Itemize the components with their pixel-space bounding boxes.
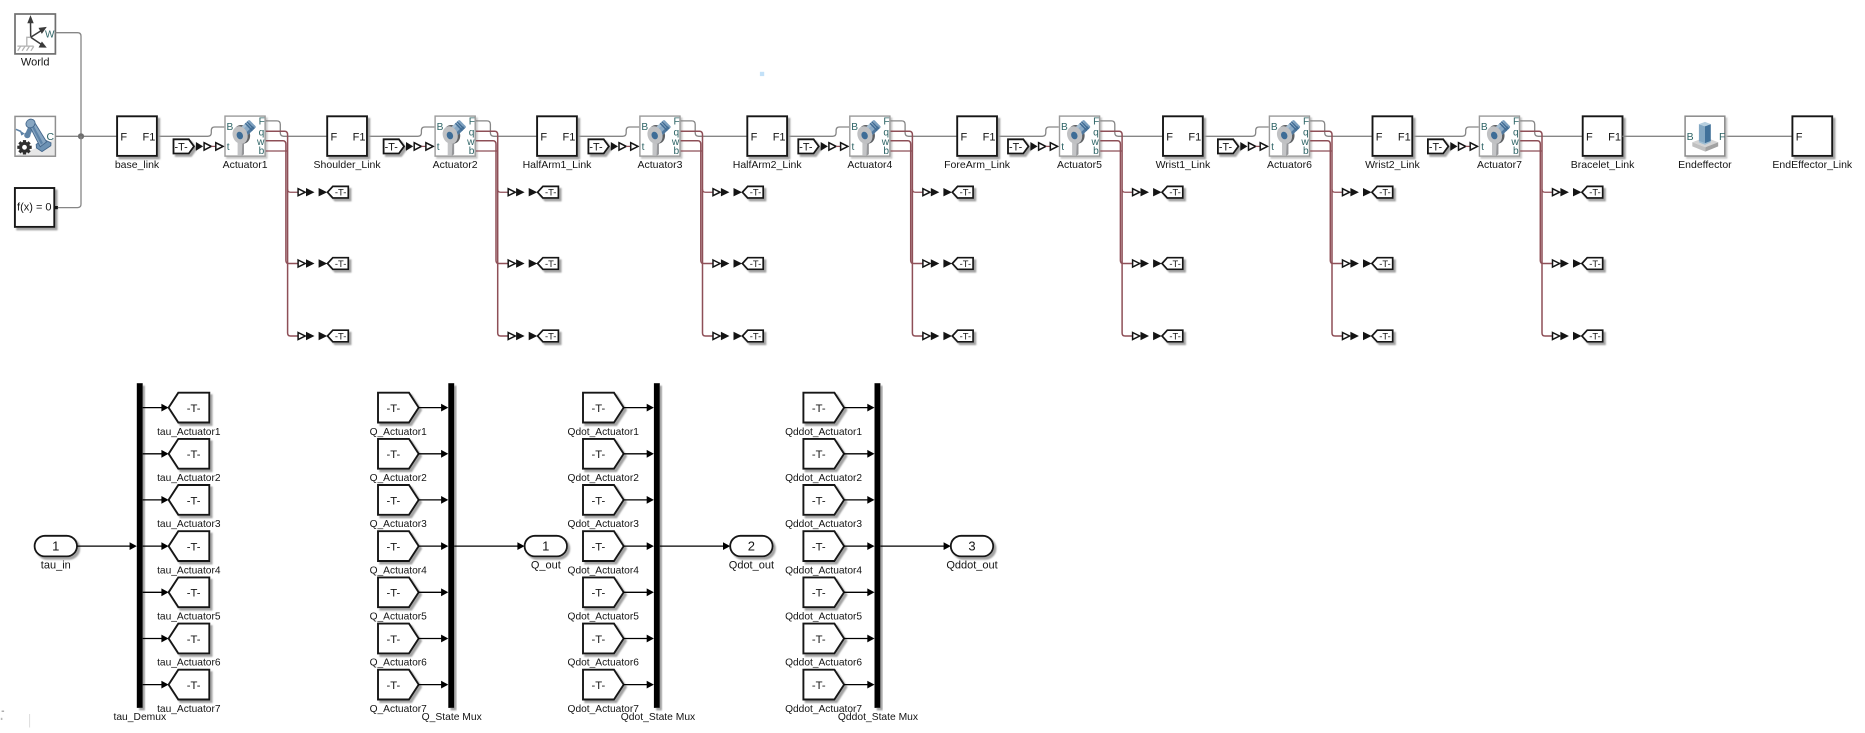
goto tag -T- tau_Actuator5 <box>157 577 221 622</box>
svg-text:-T-: -T- <box>812 449 826 461</box>
svg-text:Qddot_out: Qddot_out <box>946 559 997 571</box>
goto tag -T- tau_Actuator6 <box>157 624 221 669</box>
junction node <box>78 133 84 139</box>
wire tau_Demux out 7 <box>143 684 162 686</box>
svg-text:t: t <box>227 142 230 153</box>
wire Actuator1 q branch row1 <box>288 189 299 192</box>
svg-text:-T-: -T- <box>591 634 605 646</box>
svg-text:-T-: -T- <box>1379 330 1390 341</box>
goto group Actuator7 b <box>1553 330 1603 342</box>
svg-text:-T-: -T- <box>750 187 761 198</box>
svg-text:b: b <box>1303 146 1309 157</box>
arrow into Actuator7 t <box>1450 142 1457 151</box>
svg-text:-T-: -T- <box>545 258 556 269</box>
svg-text:tau_Actuator4: tau_Actuator4 <box>157 565 221 576</box>
wire Actuator7 w down <box>1520 141 1553 264</box>
svg-text:-T-: -T- <box>591 680 605 692</box>
from tag -T- Qddot_Actuator5 <box>785 577 862 622</box>
wire tag to Actuator1 t <box>211 145 216 147</box>
svg-text:Wrist2_Link: Wrist2_Link <box>1365 159 1420 171</box>
svg-text:Q_Actuator4: Q_Actuator4 <box>370 565 428 576</box>
wire Q_Actuator5 to Q_State Mux <box>418 591 441 593</box>
wire Qddot_Actuator7 to Qddot_State Mux <box>844 684 868 686</box>
from tag -T- feeding Actuator6 t <box>1218 139 1239 153</box>
wire Actuator6 w down <box>1310 141 1343 264</box>
svg-text:1: 1 <box>542 539 549 554</box>
svg-text:Qdot_Actuator6: Qdot_Actuator6 <box>568 658 640 669</box>
svg-text:F: F <box>1796 131 1803 143</box>
goto group Actuator3 q <box>713 186 763 198</box>
from tag -T- feeding Actuator1 t <box>174 139 195 153</box>
wire Wrist1_Link F1 to Actuator6 B <box>1203 127 1269 136</box>
wire tau_Demux out 1 <box>143 407 162 409</box>
mux bar tau_Demux <box>113 383 167 723</box>
svg-text:Qddot_State Mux: Qddot_State Mux <box>838 712 919 723</box>
wire HalfArm1_Link F1 to Actuator3 B <box>577 127 639 136</box>
svg-text:Shoulder_Link: Shoulder_Link <box>314 159 382 171</box>
svg-text:-T-: -T- <box>386 634 400 646</box>
wire Qdot_Actuator3 to Qdot_State Mux <box>623 499 647 501</box>
from tag -T- Qdot_Actuator2 <box>568 439 640 484</box>
svg-text:Qddot_Actuator5: Qddot_Actuator5 <box>785 612 862 623</box>
svg-text:-T-: -T- <box>591 449 605 461</box>
goto group Actuator1 b <box>298 330 348 342</box>
wire Actuator4 q/b down <box>891 131 924 336</box>
goto group Actuator6 w <box>1343 258 1393 270</box>
svg-text:F: F <box>883 116 889 127</box>
svg-text:-T-: -T- <box>386 449 400 461</box>
wire Actuator1 q/b down <box>266 131 299 336</box>
svg-text:-T-: -T- <box>1169 187 1180 198</box>
wire Actuator5 q/b down <box>1100 131 1133 336</box>
svg-text:Qdot_Actuator1: Qdot_Actuator1 <box>568 427 640 438</box>
svg-text:F1: F1 <box>1398 131 1411 143</box>
svg-text:-T-: -T- <box>591 588 605 600</box>
svg-text:2: 2 <box>748 539 755 554</box>
wire Qddot_State Mux to Qddot_out <box>880 545 944 547</box>
svg-text:World: World <box>21 57 50 69</box>
goto tag -T- tau_Actuator3 <box>157 485 221 530</box>
wire Actuator6 F to next link <box>1310 121 1372 136</box>
svg-text:-T-: -T- <box>960 258 971 269</box>
wire Endeffector F to EndEffector_Link F <box>1725 135 1792 137</box>
goto group Actuator2 b <box>508 330 558 342</box>
arrow into Actuator1 t <box>196 142 203 151</box>
svg-text:F1: F1 <box>773 131 786 143</box>
svg-text:F: F <box>751 131 758 143</box>
svg-text:Actuator6: Actuator6 <box>1267 159 1312 171</box>
goto group Actuator6 b <box>1343 330 1393 342</box>
wire Actuator5 F to next link <box>1100 121 1163 136</box>
wire HalfArm2_Link F1 to Actuator4 B <box>787 127 849 136</box>
svg-text:Qdot_Actuator4: Qdot_Actuator4 <box>568 565 640 576</box>
svg-text:Q_Actuator2: Q_Actuator2 <box>370 473 428 484</box>
svg-text:-T-: -T- <box>589 141 603 153</box>
svg-text:-T-: -T- <box>187 542 201 554</box>
wire Q_Actuator2 to Q_State Mux <box>418 453 441 455</box>
goto group Actuator5 b <box>1133 330 1183 342</box>
wire Qddot_Actuator3 to Qddot_State Mux <box>844 499 868 501</box>
wire Actuator4 w down <box>891 141 924 264</box>
input port 1 tau_in <box>35 536 77 572</box>
actuator block Actuator3 <box>638 116 683 171</box>
goto group Actuator4 b <box>923 330 973 342</box>
from tag -T- Qddot_Actuator1 <box>785 393 862 438</box>
svg-text:base_link: base_link <box>115 159 160 171</box>
wire Actuator6 q/b down <box>1310 131 1343 336</box>
goto group Actuator3 w <box>713 258 763 270</box>
svg-text:Qdot_Actuator5: Qdot_Actuator5 <box>568 612 640 623</box>
wire Qdot_Actuator4 to Qdot_State Mux <box>623 545 647 547</box>
svg-text:b: b <box>1093 146 1099 157</box>
svg-text:tau_Actuator5: tau_Actuator5 <box>157 612 221 623</box>
goto group Actuator2 w <box>508 258 558 270</box>
from tag -T- feeding Actuator5 t <box>1008 139 1029 153</box>
svg-text:F: F <box>1586 131 1593 143</box>
from tag -T- Q_Actuator3 <box>370 485 428 530</box>
from tag -T- Qddot_Actuator2 <box>785 439 862 484</box>
wire Actuator5 q branch row1 <box>1122 189 1133 192</box>
mux bar Qdot_State Mux <box>621 383 696 723</box>
goto tag -T- tau_Actuator7 <box>157 670 221 715</box>
svg-text:-T-: -T- <box>812 542 826 554</box>
from tag -T- Q_Actuator2 <box>370 439 428 484</box>
goto group Actuator7 w <box>1553 258 1603 270</box>
wire Q_Actuator1 to Q_State Mux <box>418 407 441 409</box>
wire Mechanism C to base_link F <box>56 135 118 137</box>
wire tau_Demux out 2 <box>143 453 162 455</box>
wire Actuator7 q/b down <box>1520 131 1553 336</box>
wire tau_Demux out 4 <box>143 545 162 547</box>
svg-text:F: F <box>674 116 680 127</box>
svg-text:B: B <box>851 122 858 133</box>
from tag -T- Qddot_Actuator3 <box>785 485 862 530</box>
wire ForeArm_Link F1 to Actuator5 B <box>997 127 1059 136</box>
svg-text:-T-: -T- <box>1589 258 1600 269</box>
block base_link <box>115 116 160 171</box>
wire Q_State Mux to Q_out <box>454 545 518 547</box>
svg-text:t: t <box>1061 142 1064 153</box>
wire tau_Demux out 5 <box>143 591 162 593</box>
svg-text:-T-: -T- <box>750 330 761 341</box>
block World <box>15 14 55 69</box>
wire tag to Actuator4 t <box>836 145 841 147</box>
goto group Actuator5 q <box>1133 186 1183 198</box>
output port 3 Qddot_out <box>946 536 997 572</box>
svg-text:-T-: -T- <box>335 258 346 269</box>
wire Qdot_Actuator2 to Qdot_State Mux <box>623 453 647 455</box>
arrow into Actuator6 t <box>1240 142 1247 151</box>
svg-text:-T-: -T- <box>1219 141 1233 153</box>
wire Q_Actuator4 to Q_State Mux <box>418 545 441 547</box>
svg-text:-T-: -T- <box>386 403 400 415</box>
svg-text:t: t <box>852 142 855 153</box>
annotation blue square <box>760 72 764 76</box>
goto group Actuator1 w <box>298 258 348 270</box>
svg-text:HalfArm1_Link: HalfArm1_Link <box>523 159 593 171</box>
svg-text:-T-: -T- <box>812 634 826 646</box>
svg-text:-T-: -T- <box>174 141 188 153</box>
svg-text:HalfArm2_Link: HalfArm2_Link <box>733 159 803 171</box>
svg-text:-T-: -T- <box>750 258 761 269</box>
block Endeffector <box>1678 116 1732 171</box>
wire Qdot_Actuator1 to Qdot_State Mux <box>623 407 647 409</box>
arrow into Actuator2 t <box>406 142 413 151</box>
wire Actuator1 w down <box>266 141 299 264</box>
wire Qddot_Actuator5 to Qddot_State Mux <box>844 591 868 593</box>
svg-text:b: b <box>1513 146 1519 157</box>
from tag -T- feeding Actuator2 t <box>384 139 405 153</box>
svg-text:-T-: -T- <box>1379 258 1390 269</box>
mux bar Q_State Mux <box>422 383 483 723</box>
svg-text:-T-: -T- <box>335 330 346 341</box>
wire Qdot_Actuator5 to Qdot_State Mux <box>623 591 647 593</box>
svg-text:-T-: -T- <box>545 187 556 198</box>
svg-text:tau_Actuator1: tau_Actuator1 <box>157 427 221 438</box>
actuator block Actuator1 <box>223 116 268 171</box>
svg-text:-T-: -T- <box>1169 258 1180 269</box>
svg-text:-T-: -T- <box>386 495 400 507</box>
goto group Actuator7 q <box>1553 186 1603 198</box>
svg-text:B: B <box>641 122 648 133</box>
block HalfArm2_Link <box>733 116 803 171</box>
svg-text:1: 1 <box>52 539 59 554</box>
actuator block Actuator6 <box>1267 116 1312 171</box>
wire Actuator2 w down <box>476 141 509 264</box>
svg-text:F: F <box>469 116 475 127</box>
svg-text:EndEffector_Link: EndEffector_Link <box>1772 159 1853 171</box>
svg-text:-T-: -T- <box>960 187 971 198</box>
block Shoulder_Link <box>314 116 382 171</box>
svg-text:Q_Actuator3: Q_Actuator3 <box>370 519 428 530</box>
goto tag -T- tau_Actuator4 <box>157 531 221 576</box>
goto group Actuator4 q <box>923 186 973 198</box>
svg-text:b: b <box>674 146 680 157</box>
wire tag to Actuator7 t <box>1466 145 1471 147</box>
svg-text:F1: F1 <box>1608 131 1621 143</box>
from tag -T- feeding Actuator7 t <box>1428 139 1449 153</box>
svg-text:F1: F1 <box>143 131 156 143</box>
wire Bracelet_Link F1 to Endeffector B <box>1622 135 1685 137</box>
svg-text:F: F <box>1303 116 1309 127</box>
svg-text:F: F <box>961 131 968 143</box>
svg-text:Qdot_Actuator3: Qdot_Actuator3 <box>568 519 640 530</box>
svg-text:-T-: -T- <box>812 588 826 600</box>
svg-text:-T-: -T- <box>960 330 971 341</box>
svg-text:F1: F1 <box>983 131 996 143</box>
svg-text:-T-: -T- <box>591 495 605 507</box>
output port 2 Qdot_out <box>729 536 774 572</box>
from tag -T- feeding Actuator4 t <box>798 139 819 153</box>
from tag -T- Q_Actuator6 <box>370 624 428 669</box>
svg-text:tau_Actuator2: tau_Actuator2 <box>157 473 221 484</box>
svg-text:t: t <box>642 142 645 153</box>
svg-text:b: b <box>259 146 265 157</box>
wire Actuator5 w down <box>1100 141 1133 264</box>
svg-text:t: t <box>437 142 440 153</box>
svg-text:t: t <box>1481 142 1484 153</box>
wire Actuator2 q branch row1 <box>498 189 509 192</box>
wire Qdot_Actuator6 to Qdot_State Mux <box>623 638 647 640</box>
svg-text:Qddot_Actuator4: Qddot_Actuator4 <box>785 565 862 576</box>
svg-text:tau_Actuator6: tau_Actuator6 <box>157 658 221 669</box>
svg-text:Qddot_Actuator1: Qddot_Actuator1 <box>785 427 862 438</box>
wire Actuator3 w down <box>681 141 714 264</box>
svg-text:Qdot_State Mux: Qdot_State Mux <box>621 712 696 723</box>
svg-text:F1: F1 <box>563 131 576 143</box>
actuator block Actuator4 <box>847 116 892 171</box>
svg-text:-T-: -T- <box>187 588 201 600</box>
arrow into Actuator3 t <box>611 142 618 151</box>
actuator block Actuator2 <box>433 116 478 171</box>
svg-text:W: W <box>45 29 55 40</box>
from tag -T- Qdot_Actuator6 <box>568 624 640 669</box>
goto group Actuator1 q <box>298 186 348 198</box>
svg-text:-T-: -T- <box>545 330 556 341</box>
wire Actuator6 q branch row1 <box>1332 189 1343 192</box>
svg-text:Q_out: Q_out <box>531 559 561 571</box>
svg-text:F: F <box>1093 116 1099 127</box>
wire World W to junction <box>56 33 82 137</box>
wire Qddot_Actuator6 to Qddot_State Mux <box>844 638 868 640</box>
from tag -T- Q_Actuator4 <box>370 531 428 576</box>
from tag -T- Qddot_Actuator4 <box>785 531 862 576</box>
svg-text:F: F <box>540 131 547 143</box>
block Wrist2_Link <box>1365 116 1420 171</box>
svg-text:tau_in: tau_in <box>41 559 71 571</box>
svg-text:Actuator7: Actuator7 <box>1477 159 1522 171</box>
svg-text:Q_Actuator5: Q_Actuator5 <box>370 612 428 623</box>
svg-text:Q_State Mux: Q_State Mux <box>422 712 483 723</box>
goto tag -T- tau_Actuator2 <box>157 439 221 484</box>
from tag -T- Q_Actuator5 <box>370 577 428 622</box>
goto group Actuator5 w <box>1133 258 1183 270</box>
block ForeArm_Link <box>944 116 1011 171</box>
svg-text:Actuator4: Actuator4 <box>847 159 892 171</box>
from tag -T- Qdot_Actuator3 <box>568 485 640 530</box>
svg-text:-T-: -T- <box>1009 141 1023 153</box>
goto tag -T- tau_Actuator1 <box>157 393 221 438</box>
block Mechanism Configuration <box>15 116 55 156</box>
wire Qddot_Actuator1 to Qddot_State Mux <box>844 407 868 409</box>
from tag -T- Qddot_Actuator7 <box>785 670 862 715</box>
svg-text:B: B <box>1061 122 1068 133</box>
wire tag to Actuator3 t <box>626 145 631 147</box>
svg-text:F1: F1 <box>353 131 366 143</box>
wire base_link F1 to Actuator1 B <box>157 127 225 136</box>
wire Actuator3 q branch row1 <box>703 189 714 192</box>
svg-text:Bracelet_Link: Bracelet_Link <box>1571 159 1635 171</box>
svg-text:-T-: -T- <box>812 680 826 692</box>
from tag -T- Qdot_Actuator7 <box>568 670 640 715</box>
svg-text:-T-: -T- <box>187 403 201 415</box>
svg-text:-T-: -T- <box>1379 187 1390 198</box>
wire Actuator7 q branch row1 <box>1542 189 1553 192</box>
svg-text:B: B <box>1481 122 1488 133</box>
output port 1 Q_out <box>525 536 567 572</box>
wire tag to Actuator2 t <box>421 145 426 147</box>
svg-text:Q_Actuator7: Q_Actuator7 <box>370 704 428 715</box>
arrow into Actuator5 t <box>1030 142 1037 151</box>
arrow into Actuator4 t <box>821 142 828 151</box>
svg-text:Wrist1_Link: Wrist1_Link <box>1156 159 1211 171</box>
svg-text:tau_Actuator3: tau_Actuator3 <box>157 519 221 530</box>
wire Actuator7 F to next link <box>1520 121 1583 136</box>
svg-text:Actuator2: Actuator2 <box>433 159 478 171</box>
svg-text:-T-: -T- <box>799 141 813 153</box>
svg-text:-T-: -T- <box>335 187 346 198</box>
svg-text:F: F <box>1166 131 1173 143</box>
svg-text:-T-: -T- <box>187 634 201 646</box>
wire Solver to junction <box>58 136 81 207</box>
svg-text:F: F <box>1513 116 1519 127</box>
wire Qdot_Actuator7 to Qdot_State Mux <box>623 684 647 686</box>
svg-text:-T-: -T- <box>1589 187 1600 198</box>
wire Actuator4 q branch row1 <box>912 189 923 192</box>
wire Shoulder_Link F1 to Actuator2 B <box>367 127 435 136</box>
wire tag to Actuator6 t <box>1256 145 1261 147</box>
svg-text:b: b <box>883 146 889 157</box>
svg-text:-T-: -T- <box>591 542 605 554</box>
actuator block Actuator7 <box>1477 116 1522 171</box>
svg-text:B: B <box>227 122 234 133</box>
goto group Actuator6 q <box>1343 186 1393 198</box>
block Solver f(x)=0 <box>15 188 58 227</box>
svg-text:-T-: -T- <box>1169 330 1180 341</box>
wire Q_Actuator7 to Q_State Mux <box>418 684 441 686</box>
actuator block Actuator5 <box>1057 116 1102 171</box>
svg-text:Q_Actuator1: Q_Actuator1 <box>370 427 428 438</box>
from tag -T- Q_Actuator1 <box>370 393 428 438</box>
wire Actuator3 F to next link <box>681 121 748 136</box>
svg-text:Q_Actuator6: Q_Actuator6 <box>370 658 428 669</box>
wire Q_Actuator3 to Q_State Mux <box>418 499 441 501</box>
svg-text:Actuator3: Actuator3 <box>638 159 683 171</box>
svg-text:t: t <box>1271 142 1274 153</box>
svg-text:F: F <box>120 131 127 143</box>
from tag -T- Qddot_Actuator6 <box>785 624 862 669</box>
svg-text:B: B <box>1687 131 1694 143</box>
wire Actuator4 F to next link <box>891 121 958 136</box>
svg-text:-T-: -T- <box>187 449 201 461</box>
svg-text:-T-: -T- <box>386 542 400 554</box>
svg-text:C: C <box>47 131 55 143</box>
svg-text:Qddot_Actuator6: Qddot_Actuator6 <box>785 658 862 669</box>
svg-text:3: 3 <box>968 539 975 554</box>
from tag -T- Q_Actuator7 <box>370 670 428 715</box>
svg-text:Qdot_Actuator2: Qdot_Actuator2 <box>568 473 640 484</box>
svg-text:Actuator1: Actuator1 <box>223 159 268 171</box>
from tag -T- Qdot_Actuator4 <box>568 531 640 576</box>
block Bracelet_Link <box>1571 116 1635 171</box>
stray scrollbar artifact <box>28 714 31 728</box>
svg-text:F: F <box>1719 131 1725 143</box>
wire tau_Demux out 3 <box>143 499 162 501</box>
svg-text:Qdot_out: Qdot_out <box>729 559 774 571</box>
svg-text:-T-: -T- <box>187 495 201 507</box>
from tag -T- Qdot_Actuator5 <box>568 577 640 622</box>
svg-text:-T-: -T- <box>1589 330 1600 341</box>
svg-text:b: b <box>469 146 475 157</box>
wire tau_Demux out 6 <box>143 638 162 640</box>
svg-text:tau_Actuator7: tau_Actuator7 <box>157 704 221 715</box>
svg-text:B: B <box>437 122 444 133</box>
svg-text:Qddot_Actuator3: Qddot_Actuator3 <box>785 519 862 530</box>
wire Actuator2 q/b down <box>476 131 509 336</box>
svg-text:ForeArm_Link: ForeArm_Link <box>944 159 1011 171</box>
wire Qddot_Actuator2 to Qddot_State Mux <box>844 453 868 455</box>
svg-text:-T-: -T- <box>812 495 826 507</box>
